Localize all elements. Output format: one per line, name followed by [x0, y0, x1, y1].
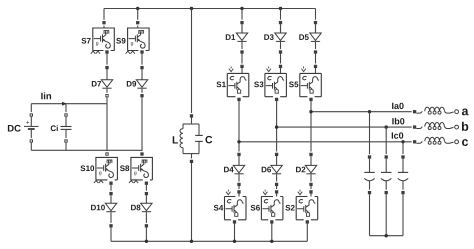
cap bottom port phase a — [368, 190, 372, 196]
S6 bottom port — [270, 219, 274, 225]
svg-text:Ia0: Ia0 — [392, 101, 405, 111]
wire upper rail DC plus — [31, 103, 107, 105]
diode D3 — [275, 33, 286, 41]
Ci top port — [64, 112, 68, 118]
node junction bottom rail at tank leg — [190, 240, 193, 243]
wire port to D8 — [145, 195, 147, 203]
node junction bottom rail at S4 — [233, 240, 236, 243]
switch S8 — [129, 157, 153, 183]
wire D3 to S3 — [280, 54, 282, 65]
Ic0 line end port — [412, 140, 418, 144]
cap top port phase b — [384, 154, 388, 160]
svg-text:D6: D6 — [261, 165, 272, 174]
S5 bottom port — [309, 97, 313, 103]
diode D10 — [105, 203, 116, 211]
wire top rail down to tank — [191, 9, 193, 115]
wire top rail to S7 collector — [103, 9, 105, 29]
D10 top port — [109, 191, 113, 197]
node junction S1 leg phase c — [237, 140, 240, 143]
wire S8 to D8 — [145, 185, 147, 192]
D7 top port — [105, 65, 109, 71]
svg-text:D3: D3 — [264, 33, 275, 42]
S7 top port — [102, 20, 106, 26]
D7 bottom port — [105, 93, 109, 99]
wire cap to neutral bar phase b — [385, 194, 387, 236]
node junction top rail above D1 — [240, 7, 243, 10]
inductor L branch — [180, 124, 183, 154]
wire port to D9 — [141, 69, 143, 80]
wire DC bottom lead — [30, 143, 32, 151]
wire cap to neutral bar phase a — [369, 194, 371, 236]
svg-text:S9: S9 — [116, 36, 126, 45]
wire capacitor neutral bar — [370, 235, 404, 237]
node junction filter cap tap phase c — [401, 140, 404, 143]
node junction top rail above D3 — [279, 7, 282, 10]
S10 top port — [105, 151, 109, 157]
D4 bottom port — [237, 182, 241, 188]
D10 bottom port — [109, 223, 113, 229]
wire cap to port phase c — [402, 181, 404, 191]
svg-text:S3: S3 — [254, 80, 264, 89]
wire top DC-link rail — [104, 8, 316, 10]
wire tank bottom bar — [183, 153, 199, 155]
switch S1 — [227, 67, 249, 97]
svg-text:b: b — [461, 120, 469, 134]
wire port to cap phase c — [402, 159, 404, 173]
wire top rail to D1 — [241, 9, 243, 32]
node junction top rail above S9 — [136, 7, 139, 10]
node junction filter cap tap phase a — [368, 110, 371, 113]
capacitor C branch — [195, 124, 203, 154]
wire port into S2 — [310, 194, 312, 197]
wire phase a output tap — [311, 111, 415, 113]
wire D7 down through rails to S10 — [106, 97, 108, 157]
Ia0 line end port — [412, 110, 418, 114]
svg-text:S1: S1 — [216, 80, 226, 89]
svg-text:S10: S10 — [80, 164, 95, 173]
svg-text:S7: S7 — [81, 36, 91, 45]
node junction bottom rail at S6 — [270, 240, 273, 243]
wire D9 down to S8 — [141, 97, 143, 157]
wire cap to neutral bar phase c — [402, 194, 404, 236]
S8 top port — [140, 151, 144, 157]
svg-text:DC: DC — [7, 123, 21, 134]
S7 bottom port — [105, 49, 109, 55]
S9 top port — [136, 20, 140, 26]
svg-text:Ib0: Ib0 — [392, 116, 405, 126]
D5 bottom port — [314, 49, 318, 55]
svg-text:Ic0: Ic0 — [391, 131, 404, 141]
S8 bottom port — [145, 180, 149, 186]
wire tank top bar — [183, 123, 199, 125]
wire port into S6 — [276, 194, 278, 197]
D2 bottom port — [309, 182, 313, 188]
wire cap to port phase a — [369, 181, 371, 191]
wire port into S3 — [280, 68, 282, 73]
battery DC source — [24, 120, 39, 129]
S5 top port — [314, 64, 318, 70]
svg-text:D8: D8 — [130, 203, 141, 212]
switch S10 — [94, 157, 118, 183]
node junction filter cap tap phase b — [385, 125, 388, 128]
switch S7 — [91, 28, 115, 54]
cap top port phase a — [368, 154, 372, 160]
svg-text:g: g — [134, 170, 137, 176]
wire S10 to D10 — [110, 185, 112, 192]
svg-text:Ci: Ci — [50, 124, 58, 133]
S3 bottom port — [275, 97, 279, 103]
D4 top port — [237, 152, 241, 158]
wire port into S5 — [315, 68, 317, 73]
inductor filter phase c — [416, 137, 453, 144]
wire lower rail DC minus — [31, 149, 142, 151]
wire D8 to bottom rail — [145, 227, 147, 241]
svg-text:D2: D2 — [295, 165, 306, 174]
node junction S3 leg phase b — [275, 125, 278, 128]
diode D5 — [310, 33, 321, 41]
wire port to battery — [30, 117, 32, 127]
wire DC source top lead — [30, 104, 32, 114]
svg-text:Iin: Iin — [41, 91, 52, 102]
wire port to D2 — [310, 156, 312, 165]
DC top port — [30, 112, 34, 118]
S9 bottom port — [140, 49, 144, 55]
node junction S5 leg phase a — [309, 110, 312, 113]
wire S6 to bottom rail — [271, 224, 273, 242]
wire D1 to S1 — [241, 54, 243, 65]
wire tank bottom node down — [191, 154, 193, 160]
S6 top port — [275, 189, 279, 195]
DC bottom port — [30, 138, 34, 144]
wire tap down to cap phase c — [402, 142, 404, 156]
svg-text:D9: D9 — [126, 79, 137, 88]
S1 top port — [240, 64, 244, 70]
switch S5 — [300, 67, 322, 97]
Ib0 line end port — [412, 125, 418, 129]
switch S4 — [225, 190, 247, 220]
wire port into S4 — [238, 194, 240, 197]
svg-text:D5: D5 — [299, 33, 310, 42]
D3 top port — [279, 20, 283, 26]
D6 top port — [275, 152, 279, 158]
wire phase b output tap — [277, 126, 415, 128]
svg-text:g: g — [99, 170, 102, 176]
wire D4 to S4 — [238, 186, 240, 190]
svg-text:D10: D10 — [91, 203, 106, 212]
cap bottom port phase c — [401, 190, 405, 196]
D8 top port — [145, 191, 149, 197]
D2 top port — [309, 152, 313, 158]
svg-text:D4: D4 — [223, 165, 234, 174]
switch S9 — [126, 28, 150, 54]
svg-text:S5: S5 — [289, 80, 299, 89]
wire port to D10 — [110, 195, 112, 203]
wire port to cap phase b — [385, 159, 387, 173]
inductor filter phase b — [416, 123, 453, 130]
wire port to D4 — [238, 156, 240, 165]
capacitor Ci — [61, 127, 72, 130]
diode D4 — [233, 165, 244, 173]
wire D5 to S5 — [315, 54, 317, 65]
capacitor filter phase a — [364, 172, 374, 180]
wire S3 down phase leg — [276, 101, 278, 153]
capacitor filter phase c — [398, 172, 408, 180]
terminal b — [455, 125, 459, 129]
S2 bottom port — [306, 219, 310, 225]
wire D6 to S6 — [276, 186, 278, 190]
D9 bottom port — [140, 93, 144, 99]
D5 top port — [314, 20, 318, 26]
wire port to tank top node — [191, 118, 193, 125]
wire bottom rail — [111, 240, 307, 242]
wire port to D6 — [276, 156, 278, 165]
D1 top port — [240, 20, 244, 26]
svg-text:L: L — [172, 134, 179, 146]
wire D10 to bottom rail — [110, 227, 112, 241]
wire tap down to cap phase b — [385, 127, 387, 155]
D6 bottom port — [275, 182, 279, 188]
wire S1 down phase leg — [238, 101, 240, 153]
wire top rail to D5 — [315, 9, 317, 32]
diode D2 — [305, 165, 316, 173]
wire phase c output tap — [239, 141, 415, 143]
wire top rail to S9 collector — [137, 9, 139, 29]
tank top port — [190, 113, 194, 119]
wire port to Ci — [65, 117, 67, 127]
diode D1 — [236, 33, 247, 41]
svg-text:S2: S2 — [285, 203, 295, 212]
wire S2 to bottom rail — [306, 224, 308, 242]
node Iin arrowhead / Ci junction — [62, 102, 67, 106]
D9 top port — [140, 65, 144, 71]
svg-text:S8: S8 — [120, 164, 130, 173]
wire S5 down phase leg — [310, 101, 312, 153]
wire D2 to S2 — [310, 186, 312, 190]
wire tap down to cap phase a — [369, 112, 371, 156]
wire battery to port — [30, 130, 32, 139]
cap bottom port phase b — [384, 190, 388, 196]
D8 bottom port — [145, 223, 149, 229]
svg-text:g: g — [96, 41, 99, 47]
diode D7 — [101, 80, 112, 88]
terminal a — [455, 110, 459, 114]
svg-text:S4: S4 — [214, 203, 224, 212]
wire port into S1 — [241, 68, 243, 73]
tank bottom port — [190, 159, 194, 165]
wire S7 to D7 — [106, 54, 108, 68]
S2 top port — [309, 189, 313, 195]
wire S9 to D9 — [141, 54, 143, 68]
node junction top rail above L-C leg — [190, 7, 193, 10]
switch S2 — [296, 190, 318, 220]
S4 bottom port — [233, 219, 237, 225]
svg-text:D7: D7 — [91, 79, 102, 88]
switch S6 — [261, 190, 283, 220]
svg-text:a: a — [462, 104, 470, 118]
D3 bottom port — [279, 49, 283, 55]
wire top rail to D3 — [280, 9, 282, 32]
capacitor filter phase b — [381, 172, 391, 180]
S4 top port — [237, 189, 241, 195]
svg-text:g: g — [131, 41, 134, 47]
Ci bottom port — [64, 138, 68, 144]
S10 bottom port — [109, 180, 113, 186]
svg-text:S6: S6 — [250, 203, 260, 212]
S3 top port — [279, 64, 283, 70]
wire port to cap phase a — [369, 159, 371, 173]
cap top port phase c — [401, 154, 405, 160]
D1 bottom port — [240, 49, 244, 55]
inductor filter phase a — [416, 107, 453, 114]
wire S4 to bottom rail — [234, 224, 236, 242]
wire Ci to port — [65, 130, 67, 139]
terminal c — [455, 140, 459, 144]
switch S3 — [265, 67, 287, 97]
S1 bottom port — [237, 97, 241, 103]
svg-text:C: C — [205, 134, 213, 146]
wire tank to bottom rail — [191, 163, 193, 241]
node junction neutral bar — [385, 234, 388, 237]
diode D9 — [136, 80, 147, 88]
diode D8 — [141, 203, 152, 211]
node junction bottom rail at D8 — [145, 240, 148, 243]
wire Ci top lead — [65, 104, 67, 114]
wire Ci bottom lead — [65, 143, 67, 151]
svg-text:+: + — [26, 120, 30, 126]
wire port to D7 — [106, 69, 108, 80]
svg-text:c: c — [462, 135, 469, 149]
svg-text:D1: D1 — [225, 33, 236, 42]
diode D6 — [271, 165, 282, 173]
wire cap to port phase b — [385, 181, 387, 191]
